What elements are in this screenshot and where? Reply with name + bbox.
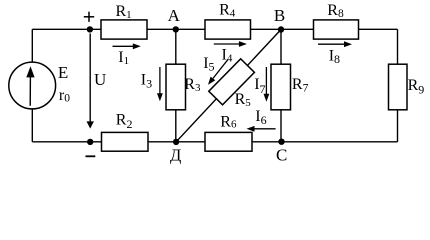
label I8	[329, 47, 340, 66]
label R5	[235, 91, 252, 109]
label node C	[276, 146, 287, 165]
resistor R1	[101, 20, 147, 39]
label node A	[168, 6, 181, 25]
label I6	[255, 108, 266, 127]
junction node D	[173, 139, 179, 145]
wire left branch (source)	[31, 29, 33, 142]
label plus sign	[84, 12, 94, 22]
current arrow I3	[157, 67, 163, 101]
wire right branch (R9)	[397, 29, 399, 142]
current arrow I7	[264, 67, 270, 102]
wire diagonal D to B (R5 branch)	[176, 30, 281, 142]
label I5	[203, 55, 214, 73]
current arrow I5 (diagonal)	[208, 60, 228, 85]
resistor R6	[205, 132, 252, 151]
label node D	[170, 146, 181, 165]
resistor R2	[102, 132, 149, 151]
junction node minus	[87, 139, 93, 145]
label R9	[408, 77, 425, 96]
label minus sign	[86, 155, 96, 157]
label I3	[141, 71, 152, 90]
label I4	[222, 46, 233, 64]
svg-text:E: E	[58, 63, 68, 82]
svg-text:C: C	[276, 146, 287, 165]
svg-text:U: U	[94, 70, 106, 89]
label I1	[118, 49, 129, 67]
label R8	[327, 2, 344, 20]
wire bottom rail	[32, 141, 397, 143]
resistor R5 (rotated on diagonal)	[209, 59, 255, 105]
current arrow I6	[247, 126, 276, 132]
resistor R4	[205, 20, 251, 39]
label R7	[292, 76, 309, 94]
current arrow I4	[214, 41, 247, 47]
junction node B	[278, 26, 284, 32]
label R6	[220, 113, 237, 130]
resistor R7	[271, 64, 291, 110]
svg-text:A: A	[168, 6, 181, 25]
junction node plus	[87, 26, 93, 32]
label I7	[254, 76, 265, 96]
wire top rail	[32, 28, 397, 30]
U voltage arrow	[87, 34, 94, 129]
svg-text:Д: Д	[170, 146, 181, 165]
wire branch A to D	[175, 29, 177, 142]
resistor R3	[166, 64, 186, 110]
label r0	[59, 87, 70, 105]
current arrow I1	[113, 43, 141, 49]
label R1	[116, 3, 132, 21]
resistor R8	[314, 20, 359, 39]
wire branch B to C	[280, 29, 282, 142]
junction node A	[173, 26, 179, 32]
label node B	[274, 6, 285, 25]
label R3	[184, 76, 201, 94]
label R4	[219, 2, 236, 20]
label U	[94, 70, 106, 89]
junction node C	[278, 139, 284, 145]
voltage source E r0 circle	[9, 62, 56, 109]
svg-text:B: B	[274, 6, 285, 25]
current arrow I8	[318, 41, 352, 47]
voltage source arrow	[26, 66, 34, 106]
label E	[58, 63, 68, 82]
label R2	[116, 112, 133, 132]
resistor R9	[389, 64, 408, 110]
